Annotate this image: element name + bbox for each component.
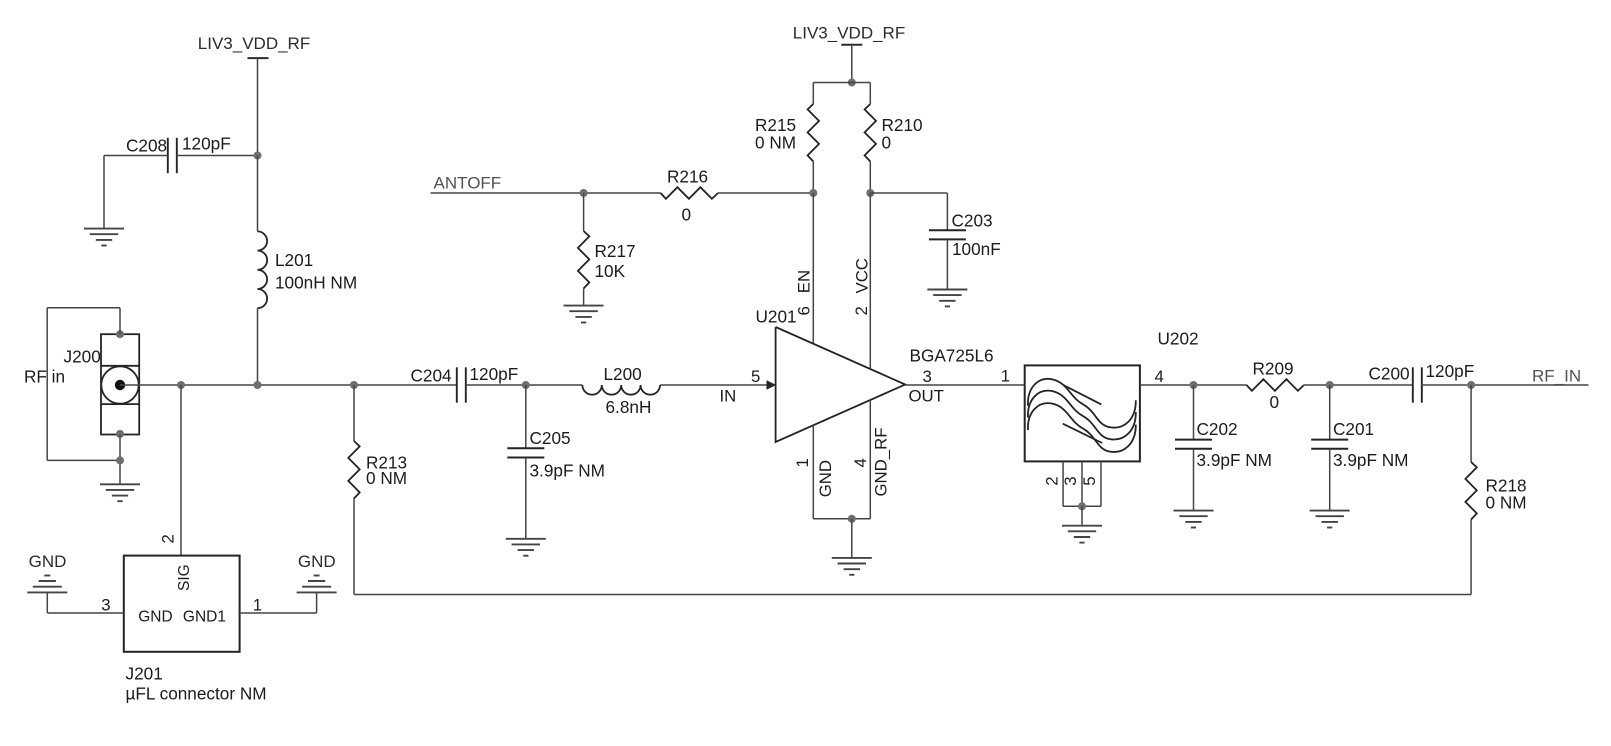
wire C208 right plate to junction [177,155,258,157]
svg-text:120pF: 120pF [1426,361,1475,381]
wire L201 to main RF wire [257,308,259,385]
svg-text:2: 2 [159,534,178,543]
svg-text:RF_IN: RF_IN [1532,367,1581,386]
svg-text:EN: EN [795,270,814,293]
node shield/loop junction [116,456,124,464]
svg-text:3.9pF NM: 3.9pF NM [530,461,605,481]
node main/C205 junction [522,381,530,389]
wire VDD split to R215/R210 [813,82,870,84]
svg-text:2: 2 [852,306,871,315]
wire U201 pin 4 GND_RF [869,400,871,519]
node VCC junction [866,189,874,197]
svg-text:R217: R217 [595,241,636,261]
svg-text:L200: L200 [604,364,642,384]
node VDD split junction [848,79,856,87]
ground (U202) [1062,525,1102,527]
inductor L201 [258,231,268,308]
wire ANTOFF to R216 [431,192,661,194]
svg-text:RF in: RF in [24,367,65,387]
svg-text:3: 3 [923,367,932,386]
svg-text:4: 4 [1155,367,1164,386]
node main/R213 junction [350,381,358,389]
node J200 shield bottom [116,430,124,438]
node main/L201 junction [254,381,262,389]
svg-text:3.9pF NM: 3.9pF NM [1197,450,1272,470]
svg-text:120pF: 120pF [182,134,231,154]
svg-text:VCC: VCC [853,258,872,293]
svg-text:ANTOFF: ANTOFF [434,174,502,193]
wire LIV3_VDD_RF down to C208/L201 junction [257,58,259,155]
resistor R217 [583,193,585,231]
filter U202 slash marks [1064,385,1102,404]
wire U202 pin 4 output [1140,384,1247,386]
wire bottom ground-return bus [354,594,1471,596]
capacitor C208 [167,138,169,173]
filter U202 wave symbol [1028,379,1136,428]
wire C200 to RF_IN [1422,384,1589,386]
svg-text:6.8nH: 6.8nH [606,397,652,417]
wire J201 pin 3 to GND [47,612,124,614]
svg-text:0 NM: 0 NM [755,133,796,153]
node U201 ground junction [848,515,856,523]
wire U201 pin 1 GND [812,425,814,519]
wire to ground (U201) [851,519,853,558]
svg-text:5: 5 [1080,476,1099,485]
capacitor C203 [929,229,966,231]
wire L200 to U201 input [660,384,767,386]
svg-text:0 NM: 0 NM [1486,493,1527,513]
svg-text:SIG: SIG [176,564,193,591]
ground (R217) [564,305,604,307]
svg-text:GND1: GND1 [183,609,226,626]
ground (C208) [84,228,124,230]
capacitor C200 [1412,367,1414,402]
svg-text:IN: IN [720,387,737,406]
node main/C201 junction [1326,381,1334,389]
svg-text:0: 0 [1270,392,1280,412]
svg-text:L201: L201 [275,250,313,270]
input arrow pin 5 [767,380,777,389]
wire C204 to L200 [466,384,583,386]
wire junction down to L201 [257,156,259,232]
capacitor C201 [1329,385,1331,440]
wire J200 bottom to ground [119,435,121,485]
resistor R215 [808,104,819,162]
ground (C202) [1174,510,1214,512]
connector J201 body [124,556,240,652]
svg-text:1: 1 [1001,367,1010,386]
svg-text:GND: GND [29,552,67,571]
node junction C208/L201 [254,152,262,160]
svg-text:J200: J200 [64,347,101,367]
resistor R209 [1247,379,1305,391]
svg-text:1: 1 [793,458,812,467]
svg-text:C200: C200 [1369,364,1410,384]
node ANTOFF/R217 junction [580,189,588,197]
op-amp U201 BGA725L6 triangle [776,327,906,442]
svg-text:C202: C202 [1197,419,1238,439]
svg-text:U201: U201 [756,307,797,327]
wire VCC to C203 [870,192,947,194]
svg-text:R216: R216 [667,167,708,187]
ground (J200) [100,483,140,485]
ground (C205) [506,538,546,540]
node J200 shield top [116,330,124,338]
svg-text:R209: R209 [1253,359,1294,379]
wire EN pin 6 into U201 [812,193,814,343]
svg-text:J201: J201 [126,664,163,684]
svg-text:100nH NM: 100nH NM [275,273,357,293]
svg-text:C205: C205 [530,428,571,448]
svg-text:U202: U202 [1158,329,1199,349]
resistor R213 [353,385,355,441]
wire main RF: J200 to C204 [120,384,457,386]
resistor R210 [865,104,876,162]
wire VCC pin 2 into U201 [869,193,871,369]
svg-text:GND: GND [816,460,835,497]
svg-text:C208: C208 [126,136,167,156]
svg-text:6: 6 [795,306,814,315]
svg-text:0: 0 [682,205,692,225]
svg-text:0 NM: 0 NM [366,468,407,488]
wire LIV3_VDD_RF down to split [851,45,853,83]
svg-text:C201: C201 [1333,419,1374,439]
ground (C203) [927,289,967,291]
svg-text:GND: GND [298,552,336,571]
wire J201 pin 1 to GND [240,612,317,614]
resistor R216 [661,187,719,199]
inductor L200 [582,385,660,395]
svg-text:GND: GND [138,609,172,626]
wire SIG down to J201 [180,385,182,556]
svg-text:10K: 10K [595,261,626,281]
svg-text:LIV3_VDD_RF: LIV3_VDD_RF [198,34,310,53]
svg-text:4: 4 [851,458,870,467]
wire J200 shield loop [119,308,121,335]
svg-text:120pF: 120pF [470,364,519,384]
svg-text:2: 2 [1043,476,1062,485]
svg-text:LIV3_VDD_RF: LIV3_VDD_RF [793,24,905,43]
capacitor C202 [1193,385,1195,440]
node main/SIG junction [177,381,185,389]
svg-text:C204: C204 [411,366,453,386]
wire R216 to EN node [718,192,813,194]
ground (C201) [1310,510,1350,512]
ground (U201) [832,557,872,559]
wire C208 left to ground [104,155,168,157]
svg-text:100nF: 100nF [952,239,1001,259]
svg-text:3.9pF NM: 3.9pF NM [1333,450,1408,470]
node main/C202 junction [1190,381,1198,389]
resistor R218 [1470,385,1472,462]
svg-text:5: 5 [751,367,760,386]
svg-text:3: 3 [1061,476,1080,485]
svg-text:OUT: OUT [909,387,944,406]
capacitor C205 [525,385,527,448]
svg-text:GND_RF: GND_RF [872,428,891,497]
wire U201 ground rail [813,518,870,520]
capacitor C204 [456,367,458,402]
svg-text:µFL connector NM: µFL connector NM [126,684,267,704]
wire R209 to C201 node [1304,384,1413,386]
node EN junction [809,189,817,197]
svg-text:1: 1 [253,595,262,614]
node U202 ground junction [1078,502,1086,510]
svg-text:3: 3 [101,595,110,614]
wire to ground (U202) [1081,506,1083,525]
svg-text:C203: C203 [952,211,993,231]
wire U202 ground pins 2/3/5 [1062,461,1064,506]
node main/R218 junction [1467,381,1475,389]
svg-text:0: 0 [882,133,892,153]
connector J200 body [101,334,139,434]
wire U201 output to U202 [905,384,1024,386]
svg-text:BGA725L6: BGA725L6 [910,346,994,366]
filter U202 box [1025,365,1140,461]
